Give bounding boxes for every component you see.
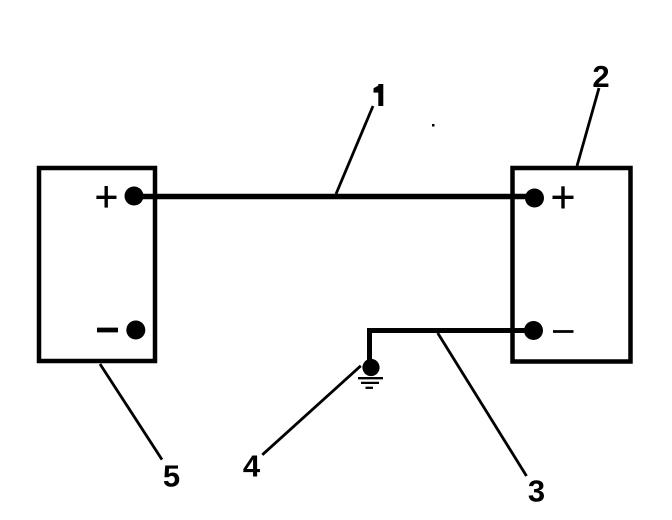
svg-text:2: 2 bbox=[592, 59, 609, 94]
svg-text:4: 4 bbox=[243, 449, 261, 484]
svg-text:5: 5 bbox=[163, 459, 180, 494]
svg-text:3: 3 bbox=[528, 474, 545, 509]
